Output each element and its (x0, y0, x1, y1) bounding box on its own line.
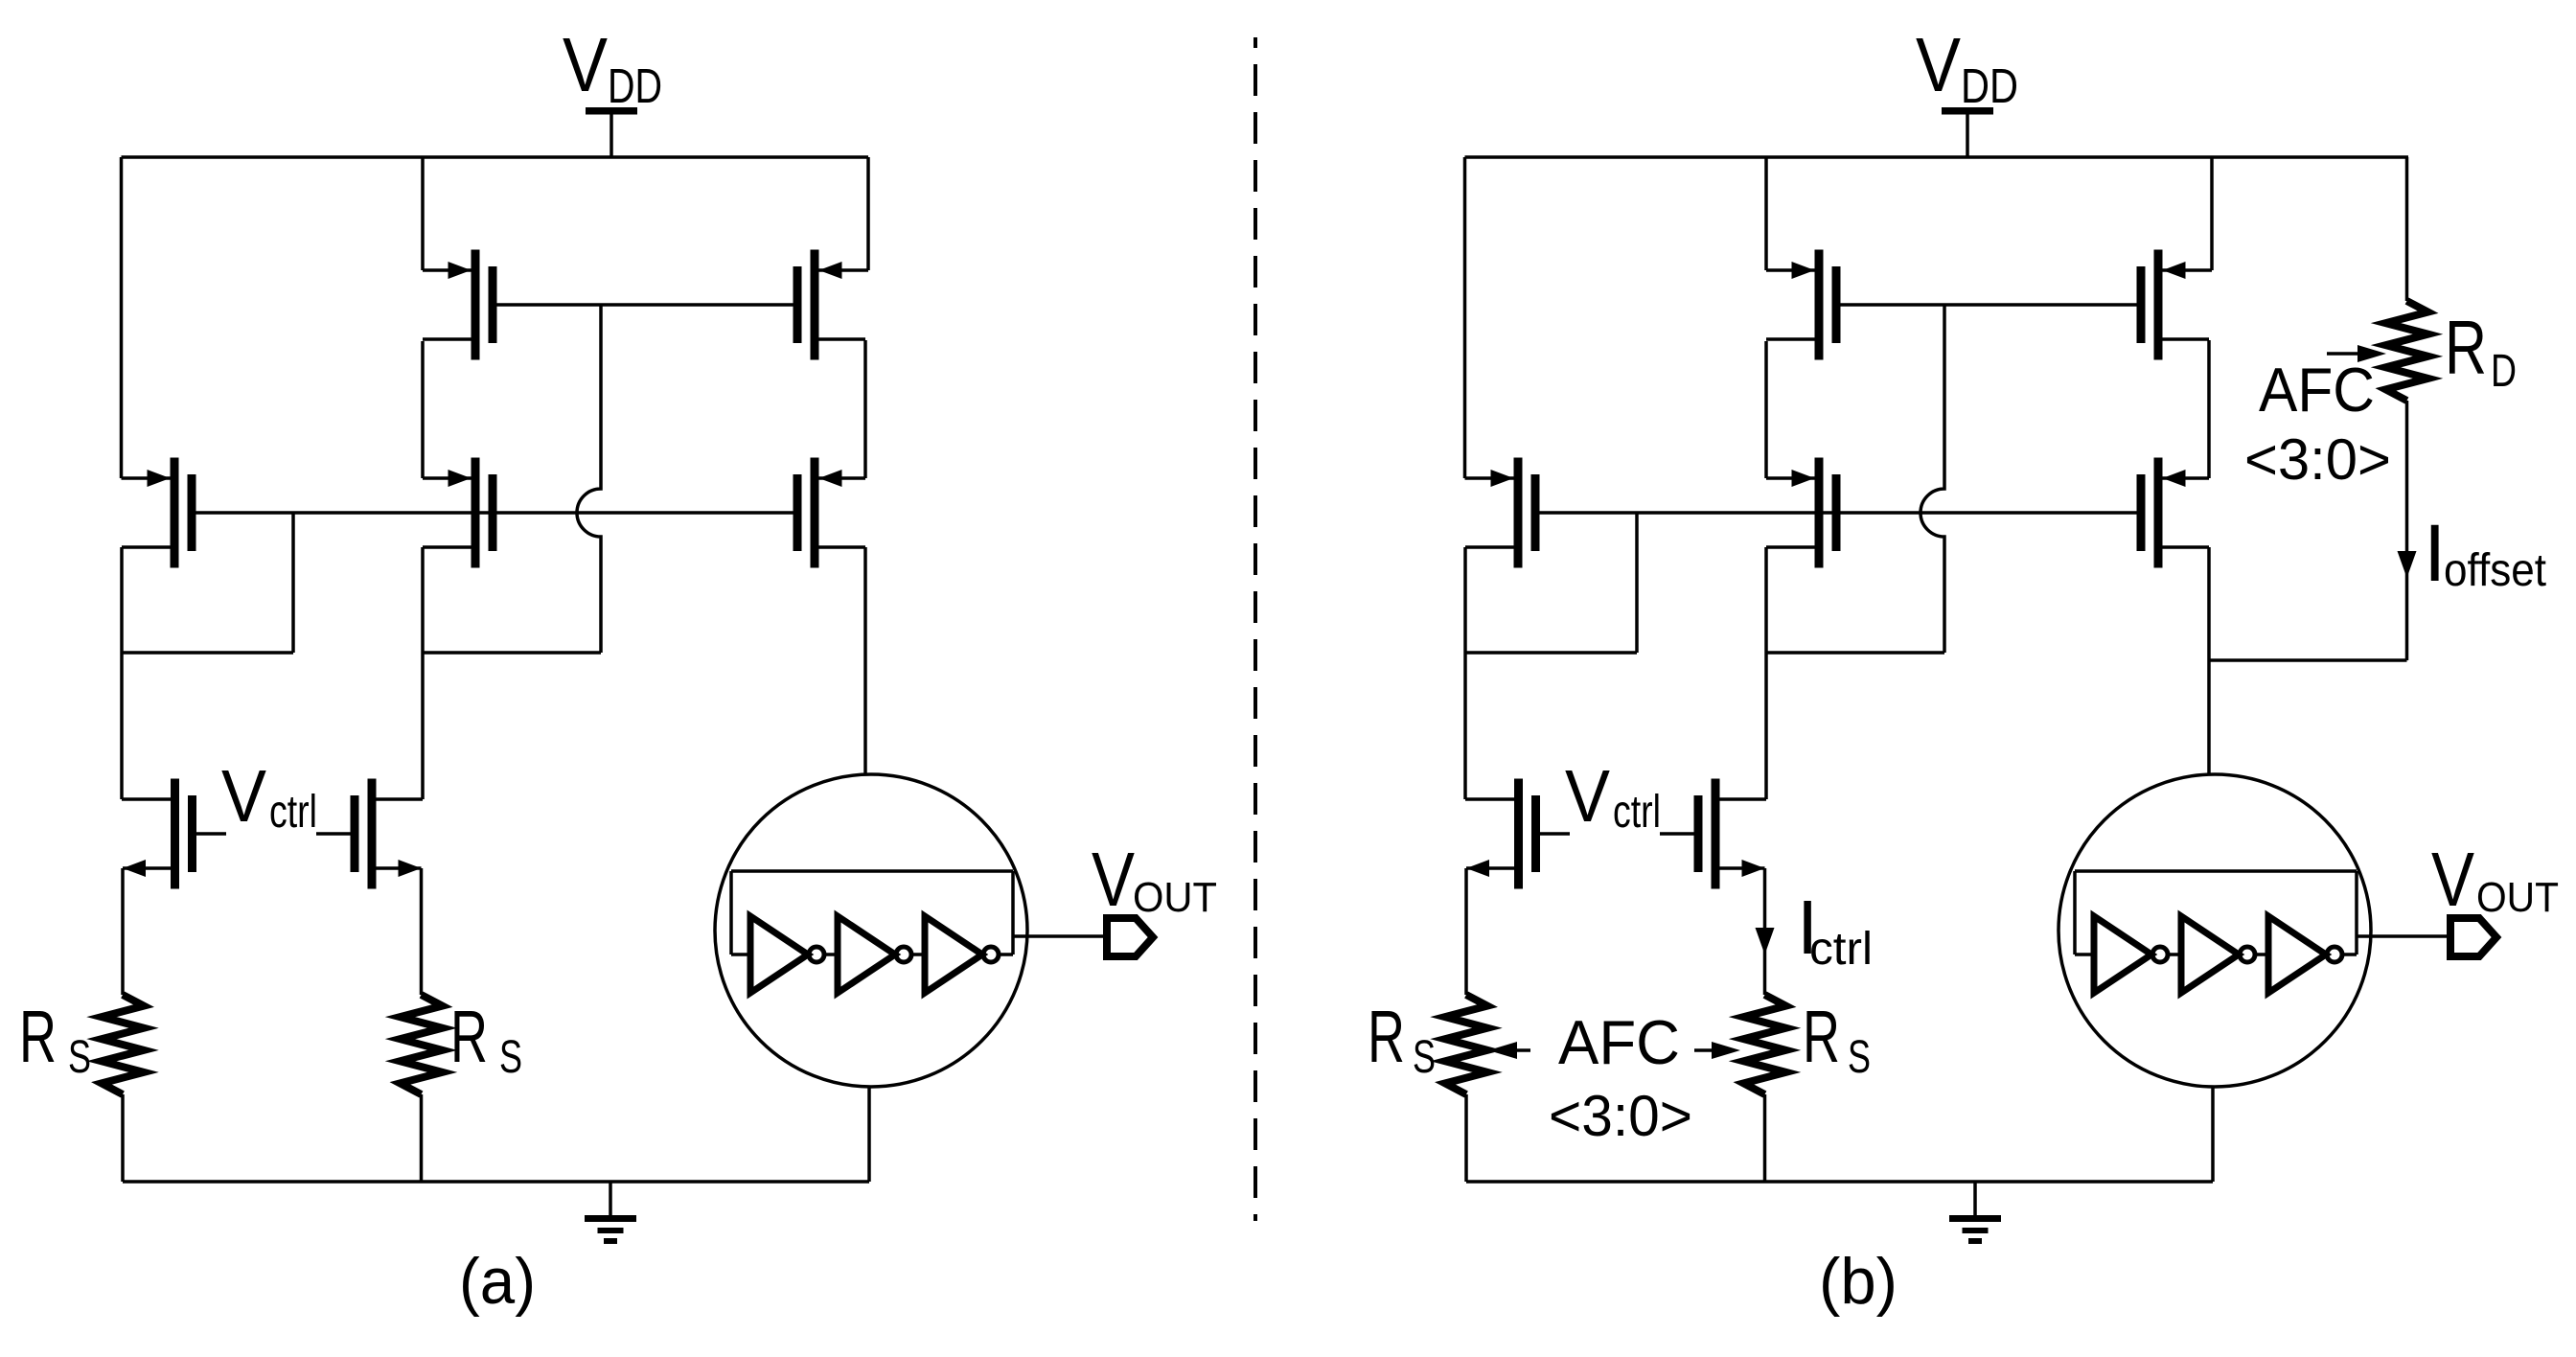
wire M2 gate lead (a) (497, 303, 793, 307)
transistor M6 Vctrl-right NMOS (a) (368, 779, 377, 889)
wire M1 drain down (a) (120, 547, 124, 653)
port VOUT pentagon (a) (1107, 918, 1153, 956)
transistor M7 cascode (b) (2154, 458, 2163, 568)
wire M4 drain to M7 (a) (863, 340, 867, 478)
wire bias link right (a) (423, 651, 601, 655)
resistor RS left (a) (102, 995, 144, 1094)
svg-text:V: V (221, 755, 267, 838)
wire inv3 out (b) (2342, 953, 2357, 956)
current arrow Ictrl (b) (1756, 928, 1775, 954)
wire RD down (b) (2405, 401, 2409, 660)
wire bias link right (b) (1766, 651, 1944, 655)
wire inv2-inv3 (a) (911, 953, 925, 956)
transistor M6 Vctrl-right NMOS (b) (1712, 779, 1720, 889)
wire gate drop with hop (b) (1920, 305, 1944, 653)
transistor M4 mirror PMOS-style (b) (2154, 250, 2163, 360)
inverter 3 (a) (925, 916, 982, 993)
svg-text:S: S (1413, 1032, 1436, 1083)
wire RS right to ground rail (a) (420, 1094, 424, 1182)
wire ground rail (a) (123, 1180, 869, 1184)
wire diode link (a) (122, 651, 293, 655)
wire M2 drain to M3 source (a) (421, 341, 425, 478)
wire ground rail (b) (1466, 1180, 2213, 1184)
inverter 2 (a) (838, 916, 895, 993)
resistor RS left (b) (1445, 995, 1487, 1094)
resistor RD (b) (2386, 301, 2428, 401)
wire M3 drain to M6 (a) (421, 653, 425, 799)
power VDD symbol (a) (586, 107, 637, 115)
svg-text:R: R (2445, 305, 2487, 390)
wire M3 drain down (a) (421, 547, 425, 653)
wire oscillator output tap (a) (1013, 934, 1103, 938)
svg-text:V: V (1092, 837, 1136, 922)
wire M7 drain to oscillator (b) (2207, 547, 2211, 774)
svg-text:V: V (2431, 837, 2475, 922)
wire rail corner down (a) (866, 157, 870, 270)
resistor RS right (b) (1744, 995, 1786, 1094)
svg-text:D: D (2491, 346, 2517, 397)
svg-text:AFC: AFC (1558, 1007, 1680, 1077)
wire rail corner down (b) (2210, 157, 2214, 270)
svg-text:offset: offset (2444, 545, 2546, 596)
wire M3 drain down (b) (1764, 547, 1768, 653)
svg-text:AFC: AFC (2259, 355, 2375, 425)
transistor M2 cascode PMOS-style (a) (471, 250, 480, 360)
wire M1 drain to M5 (a) (120, 653, 124, 799)
wire RS right to ground rail (b) (1763, 1094, 1767, 1182)
wire mid feed from rail (b) (1764, 157, 1768, 270)
wire M2 gate lead (b) (1841, 303, 2137, 307)
divider dashed line (1253, 37, 1257, 1221)
wire M3 drain to M6 (b) (1764, 653, 1768, 799)
wire oscillator feedback loop (a) (731, 869, 1013, 873)
wire diode link (b) (1465, 651, 1637, 655)
transistor M1 diode NMOS (a) (171, 458, 179, 568)
svg-text:DD: DD (608, 58, 662, 113)
wire M6 source to RS (b) (1763, 868, 1767, 995)
transistor M3 mirror (a) (471, 458, 480, 568)
wire M5 source to RS (b) (1464, 868, 1468, 995)
ground symbol (b) (1973, 1182, 1977, 1215)
inverter 2 (b) (2181, 916, 2239, 993)
transistor M1 diode NMOS (b) (1514, 458, 1523, 568)
wire RS left to ground rail (a) (121, 1094, 125, 1182)
svg-text:R: R (1803, 996, 1840, 1078)
transistor M7 cascode (a) (811, 458, 819, 568)
wire oscillator feedback loop (b) (2075, 869, 2357, 873)
wire M4 drain to M7 (b) (2207, 340, 2211, 478)
power VDD symbol (b) (1942, 107, 1993, 115)
wire inv1-inv2 (a) (824, 953, 838, 956)
wire VDD rail (b) (1465, 155, 2409, 159)
svg-text:DD: DD (1961, 58, 2018, 113)
wire gate drop with hop (a) (577, 305, 601, 653)
svg-text:(b): (b) (1819, 1245, 1897, 1318)
svg-text:<3:0>: <3:0> (2244, 427, 2391, 492)
inverter 1 (b) (2094, 916, 2151, 993)
wire VDD rail (a) (122, 155, 869, 159)
svg-text:V: V (1916, 22, 1962, 107)
wire M5 source to RS (a) (121, 868, 125, 995)
svg-text:R: R (19, 996, 57, 1078)
transistor M2 cascode PMOS-style (b) (1815, 250, 1824, 360)
wire gate bus lower (a) (196, 511, 793, 515)
ring oscillator circle (a) (715, 774, 1027, 1087)
svg-text:(a): (a) (459, 1245, 536, 1318)
transistor M4 mirror PMOS-style (a) (811, 250, 819, 360)
arrow AFC to RS-right (b) (1694, 1048, 1712, 1052)
svg-text:I: I (2424, 508, 2446, 598)
svg-text:<3:0>: <3:0> (1549, 1084, 1692, 1148)
wire inv1-inv2 (b) (2168, 953, 2181, 956)
svg-text:OUT: OUT (1133, 874, 1217, 921)
svg-text:V: V (563, 22, 609, 107)
wire left branch (b) (1463, 157, 1467, 478)
inverter 1 (a) (750, 916, 808, 993)
arrow AFC to RS-left (b) (1517, 1048, 1530, 1052)
svg-text:R: R (1368, 996, 1405, 1078)
transistor M5 Vctrl-left NMOS (a) (171, 779, 179, 889)
svg-text:ctrl: ctrl (269, 787, 317, 838)
arrow AFC to RD (b) (2327, 352, 2357, 356)
resistor RS right (a) (401, 995, 443, 1094)
wire mid feed from rail (a) (421, 157, 425, 270)
current arrow Ioffset (b) (2398, 551, 2417, 578)
wire inv3 out (a) (999, 953, 1013, 956)
svg-text:S: S (499, 1032, 522, 1083)
svg-text:ctrl: ctrl (1613, 787, 1661, 838)
wire rail to RD (b) (2405, 157, 2409, 301)
svg-text:S: S (1848, 1032, 1871, 1083)
svg-text:V: V (1565, 755, 1611, 838)
ring oscillator circle (b) (2058, 774, 2371, 1087)
inverter 3 (b) (2268, 916, 2326, 993)
wire M2 drain to M3 source (b) (1764, 341, 1768, 478)
wire RD bottom link (b) (2209, 658, 2407, 662)
svg-text:R: R (450, 996, 488, 1078)
wire inv2-inv3 (b) (2255, 953, 2268, 956)
port VOUT pentagon (b) (2450, 918, 2496, 956)
wire M1 drain to M5 (b) (1463, 653, 1467, 799)
svg-text:OUT: OUT (2476, 874, 2559, 921)
wire M7 drain to oscillator (a) (863, 547, 867, 774)
transistor M3 mirror (b) (1815, 458, 1824, 568)
wire gate bus lower (b) (1540, 511, 2137, 515)
wire M6 source to RS (a) (420, 868, 424, 995)
transistor M5 Vctrl-left NMOS (b) (1514, 779, 1523, 889)
wire left branch (a) (120, 157, 124, 478)
svg-text:S: S (68, 1032, 91, 1083)
ground symbol (a) (609, 1182, 612, 1215)
svg-text:ctrl: ctrl (1809, 924, 1873, 975)
wire oscillator bottom (a) (867, 1087, 871, 1182)
wire RS left to ground rail (b) (1464, 1094, 1468, 1182)
wire oscillator bottom (b) (2211, 1087, 2215, 1182)
wire oscillator output tap (b) (2357, 934, 2447, 938)
wire M1 drain down (b) (1463, 547, 1467, 653)
